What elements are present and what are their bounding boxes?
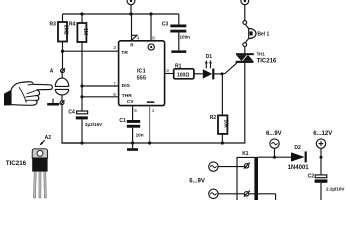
touch contact plates: [55, 78, 69, 105]
resistor R4: [69, 12, 88, 111]
wire coil to AC terminal 3: [258, 156, 291, 159]
svg-text:2µ2/16V: 2µ2/16V: [85, 122, 103, 127]
svg-text:6...12V: 6...12V: [313, 131, 332, 137]
resistor R3: [50, 14, 69, 51]
svg-text:1N4001: 1N4001: [288, 165, 310, 171]
svg-text:6...9V: 6...9V: [189, 179, 205, 185]
ground symbol under rail: [127, 143, 138, 151]
wire to pin 8: [149, 12, 155, 40]
svg-text:1M: 1M: [82, 28, 88, 35]
svg-text:C1: C1: [119, 118, 126, 124]
svg-text:Tri1: Tri1: [257, 51, 266, 56]
relay K1: [237, 151, 258, 200]
wire pin1: [148, 106, 151, 145]
svg-text:C4: C4: [68, 109, 75, 115]
AC source terminal 2: [209, 189, 276, 200]
svg-text:8: 8: [152, 36, 155, 41]
svg-text:1: 1: [152, 108, 155, 113]
AC source terminal 3: [266, 131, 282, 157]
wire top rail: [63, 13, 179, 15]
wire junction to R2: [221, 74, 223, 116]
svg-text:C3: C3: [162, 22, 169, 28]
wire pin6 THR: [80, 95, 118, 98]
capacitor C3: [162, 14, 190, 53]
wire pin2 TR: [61, 50, 119, 53]
node D1/R2/gate junction: [221, 72, 224, 75]
svg-text:Bel 1: Bel 1: [257, 31, 269, 37]
touch pad stem and bar: [47, 99, 59, 106]
capacitor C4: [68, 109, 103, 143]
svg-text:TIC216: TIC216: [257, 58, 277, 64]
wire gate to triac: [222, 63, 237, 74]
terminal top-left: [127, 0, 135, 16]
svg-text:DIS: DIS: [122, 83, 131, 89]
hand pointing icon: [4, 82, 52, 106]
capacitor C2: [308, 157, 346, 200]
svg-text:A2: A2: [45, 135, 52, 141]
ground rail: [62, 141, 245, 144]
svg-text:TIC216: TIC216: [6, 160, 27, 167]
terminal top bell: [241, 0, 249, 21]
AC source terminal 1: [209, 162, 245, 171]
svg-text:100n: 100n: [180, 35, 191, 40]
bell Bel1: [243, 21, 270, 54]
op-amp/timer IC1 555 box: [113, 41, 169, 113]
DC terminal 6...12V: [313, 131, 332, 159]
svg-text:555: 555: [137, 75, 146, 81]
resistor R1: [174, 63, 203, 78]
svg-text:2: 2: [114, 45, 117, 50]
svg-text:D1: D1: [206, 54, 213, 60]
svg-text:TR: TR: [121, 50, 128, 56]
svg-text:2M2: 2M2: [63, 25, 69, 35]
svg-text:A: A: [50, 68, 54, 74]
svg-text:3: 3: [166, 68, 169, 73]
transistor package TIC216 photo: [6, 135, 51, 198]
svg-text:R2: R2: [210, 115, 217, 121]
svg-text:2.2µ/16V: 2.2µ/16V: [326, 187, 345, 192]
svg-text:10n: 10n: [136, 132, 144, 137]
resistor R2: [210, 115, 229, 144]
capacitor C1: [119, 118, 143, 145]
diode D2 1N4001: [288, 145, 310, 171]
svg-text:K1: K1: [242, 151, 249, 157]
node A connector: [50, 51, 65, 78]
svg-text:C2: C2: [308, 173, 315, 179]
svg-text:10k: 10k: [223, 120, 229, 129]
svg-text:5: 5: [134, 108, 137, 113]
svg-text:R3: R3: [50, 22, 57, 28]
svg-text:IC1: IC1: [137, 68, 146, 74]
svg-text:100Ω: 100Ω: [177, 72, 189, 78]
wire pin7 DIS: [80, 84, 118, 87]
svg-text:THR: THR: [122, 93, 132, 99]
svg-text:R4: R4: [69, 22, 76, 28]
svg-text:6: 6: [113, 92, 116, 97]
wire pin5: [132, 106, 134, 120]
LED D1: [203, 54, 222, 79]
svg-text:4: 4: [137, 36, 140, 41]
triac Tri1: [236, 51, 277, 143]
svg-text:CV: CV: [127, 99, 134, 105]
wire to pin 4: [132, 14, 140, 41]
svg-text:R1: R1: [175, 63, 182, 69]
wire node A to ground rail: [62, 105, 82, 143]
svg-text:6...9V: 6...9V: [266, 131, 282, 137]
wire pin3 output: [165, 73, 174, 75]
svg-text:D2: D2: [294, 145, 301, 151]
